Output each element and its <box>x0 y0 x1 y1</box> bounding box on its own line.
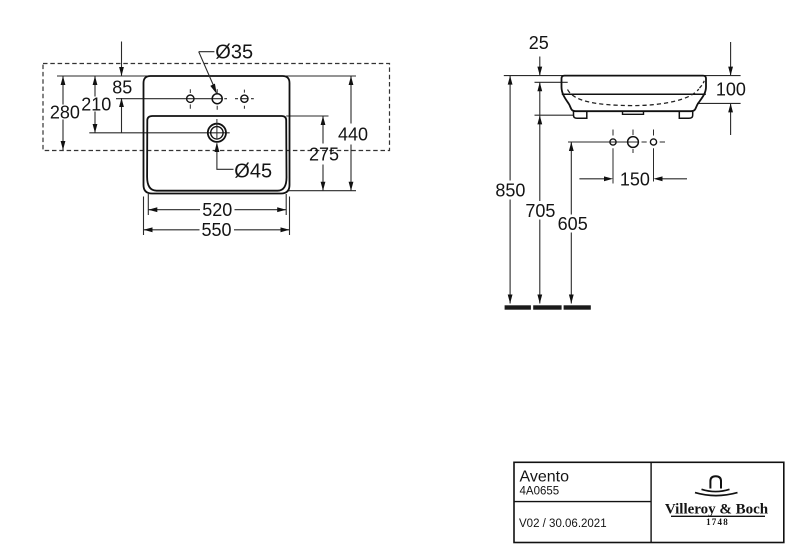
dimension 705 <box>539 115 541 303</box>
basin outer outline (top view) <box>144 76 290 194</box>
faucet hole center Ø35 (top view) <box>212 94 222 104</box>
svg-text:V02 / 30.06.2021: V02 / 30.06.2021 <box>519 518 607 530</box>
extension line: inner rim top to right y=116 <box>286 115 328 117</box>
basin inner bowl outline (top view) <box>147 116 286 191</box>
svg-text:275: 275 <box>309 144 339 164</box>
dimension 605 <box>570 142 572 304</box>
leader Ø45 <box>217 144 234 170</box>
dimension 550 <box>144 229 290 231</box>
extension lines for 550 <box>144 197 290 236</box>
svg-text:605: 605 <box>558 214 588 234</box>
extension line: basin bottom reference y=189.7 <box>288 190 356 192</box>
center drain tab <box>623 111 644 114</box>
hidden bowl dashed curve <box>568 89 699 106</box>
logo swoosh lower <box>695 493 738 496</box>
dimension 150 (outside arrows) <box>579 178 687 180</box>
svg-text:1748: 1748 <box>706 517 729 527</box>
svg-text:850: 850 <box>495 180 525 200</box>
svg-text:550: 550 <box>201 220 231 240</box>
drain hole Ø45 outer circle <box>208 124 226 142</box>
svg-text:4A0655: 4A0655 <box>520 485 560 497</box>
faucet hole left (top view) <box>187 95 194 102</box>
extension lines for 520 <box>148 194 286 215</box>
extension line: 25 below rim y=82.3 <box>535 81 568 83</box>
dimension 275 <box>322 116 324 191</box>
title block vertical divider <box>650 462 652 542</box>
extension line: rim top to 100-dim <box>706 75 741 77</box>
wall hole right <box>650 139 656 145</box>
rim band bottom edge <box>562 93 706 95</box>
extension line: drain centerline y=133 <box>89 132 229 134</box>
dimension 210 <box>94 76 96 133</box>
wall hole centerline y=142 <box>568 141 639 143</box>
floor bar left <box>505 305 531 309</box>
title block horizontal divider <box>514 501 651 503</box>
Villeroy & Boch logo arch <box>710 476 721 488</box>
extension line: faucet hole centerline y=98 <box>116 98 222 100</box>
dimension 520 <box>148 209 286 211</box>
title block outer frame <box>514 462 784 542</box>
drain hole inner circle <box>211 127 223 139</box>
faucet hole right (top view) <box>241 95 248 102</box>
svg-text:210: 210 <box>81 94 111 114</box>
basin profile outline (front view) <box>562 76 707 112</box>
extension line: rim top y=75.6 <box>504 75 706 77</box>
floor bar middle <box>533 305 561 309</box>
extension line: foot bottom y=115.2 <box>535 114 575 116</box>
dimension 100 <box>730 42 732 135</box>
left foot <box>574 111 587 118</box>
leader Ø35 <box>199 52 216 90</box>
centerline dashes right of faucet holes <box>224 98 254 100</box>
hidden overflow dash top-right <box>700 81 705 88</box>
logo swoosh upper <box>702 489 730 491</box>
extension line: basin top edge y=76 <box>57 75 356 77</box>
svg-text:Villeroy & Boch: Villeroy & Boch <box>665 502 769 518</box>
dimension 280 (left) <box>62 76 64 150</box>
svg-text:Ø45: Ø45 <box>234 160 272 182</box>
svg-text:520: 520 <box>202 200 232 220</box>
svg-text:440: 440 <box>338 124 368 144</box>
dimension 85 (outside arrows) <box>121 42 123 134</box>
svg-text:150: 150 <box>620 169 650 189</box>
wall hole center <box>628 137 639 148</box>
dimension 850 <box>509 76 511 304</box>
drain centerline tick above <box>216 119 218 138</box>
dimension 440 <box>350 76 352 191</box>
right foot <box>679 111 692 118</box>
logo underline <box>671 515 765 517</box>
floor bar right <box>564 305 591 309</box>
svg-text:Avento: Avento <box>520 469 570 486</box>
svg-text:85: 85 <box>112 78 132 98</box>
svg-text:25: 25 <box>529 33 549 53</box>
extension line: underside y=103.4 to 100-dim <box>697 102 741 104</box>
svg-text:280: 280 <box>50 102 80 122</box>
dimension 25 <box>539 57 541 116</box>
svg-text:Ø35: Ø35 <box>215 42 253 64</box>
installation plane dashed rectangle (left view) <box>43 64 390 151</box>
wall hole left <box>610 139 616 145</box>
svg-text:705: 705 <box>525 201 555 221</box>
svg-text:100: 100 <box>716 79 746 99</box>
